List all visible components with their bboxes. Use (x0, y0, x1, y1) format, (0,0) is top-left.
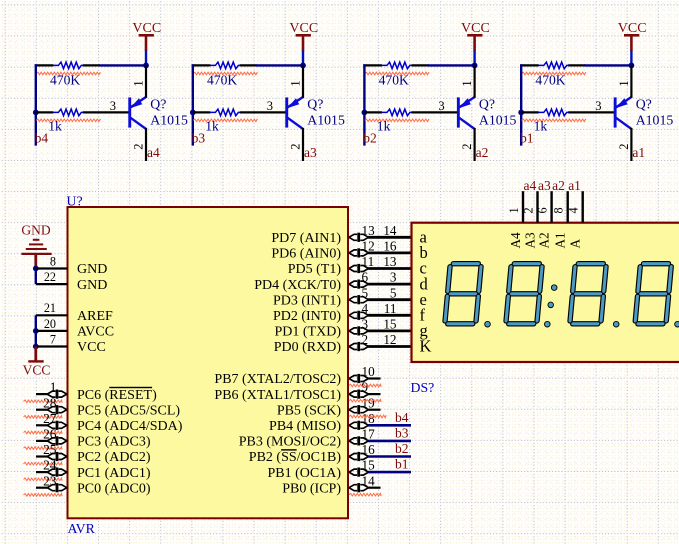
pin number 1 of Q (circuit 4) (131, 80, 145, 86)
net label b3 (395, 426, 409, 441)
svg-text:VCC: VCC (461, 21, 490, 36)
net label b2 (395, 441, 409, 456)
svg-text:A3: A3 (522, 232, 537, 249)
value label 470K (circuit 1) (535, 72, 565, 87)
svg-text:AVR: AVR (68, 521, 96, 536)
display pin number 16 (383, 239, 397, 254)
svg-text:8: 8 (552, 207, 566, 213)
display DS? body (412, 223, 679, 362)
svg-text:PC3 (ADC3): PC3 (ADC3) (77, 435, 151, 450)
wire VCC stem (circuit 3) (302, 51, 304, 66)
svg-text:PB1 (OC1A): PB1 (OC1A) (267, 466, 341, 481)
svg-text:25: 25 (43, 442, 57, 457)
svg-text:A4: A4 (508, 232, 523, 249)
svg-text:1: 1 (131, 80, 145, 86)
pin number 3 of Q (circuit 3) (267, 99, 273, 113)
power port VCC (at U? supply) (23, 347, 51, 378)
display segment pin label K (420, 337, 432, 356)
7-segment digit 1 (445, 264, 481, 324)
net label a4 (147, 145, 160, 160)
svg-text:26: 26 (43, 427, 57, 442)
wire base rail (circuit 3) (192, 64, 194, 145)
svg-text:PB0 (ICP): PB0 (ICP) (282, 481, 341, 496)
designator Q? (circuit 3) (307, 96, 323, 111)
svg-text:b4: b4 (35, 131, 49, 146)
wire emitter pin 1 (circuit 2) (474, 65, 476, 97)
pin 8 (GND) (36, 254, 108, 277)
svg-text:a2: a2 (476, 145, 489, 160)
svg-text:3: 3 (267, 99, 273, 113)
svg-text:1k: 1k (377, 119, 391, 134)
display anode label A3 (522, 232, 537, 249)
svg-text:2: 2 (288, 144, 302, 150)
svg-text:6: 6 (535, 207, 549, 213)
svg-text:PB5 (SCK): PB5 (SCK) (277, 403, 342, 418)
wire 470K row (circuit 3) (192, 64, 303, 66)
display anode label A2 (536, 232, 551, 248)
svg-text:8: 8 (50, 254, 56, 268)
wire emitter pin 1 (circuit 3) (302, 65, 304, 97)
svg-text:1k: 1k (534, 119, 548, 134)
7-segment digit 3 (570, 264, 606, 324)
svg-text:PD2 (INT0): PD2 (INT0) (273, 309, 341, 324)
pin number 3 of Q (circuit 1) (595, 99, 601, 113)
svg-text:A2: A2 (536, 232, 551, 248)
svg-text:2: 2 (460, 144, 474, 150)
net label a2 (552, 178, 565, 193)
wire 1k row (circuit 3) (193, 111, 287, 113)
svg-text:VCC: VCC (77, 340, 106, 355)
pin 13 (PD7) with wire to display (271, 223, 411, 246)
wire collector pin 2 (circuit 4) (145, 128, 147, 161)
ERC wavy marker PB pin (349, 415, 386, 418)
svg-text:AREF: AREF (77, 309, 113, 324)
svg-text:28: 28 (43, 395, 57, 410)
wire base rail (circuit 1) (520, 64, 522, 145)
value label 470K (circuit 3) (207, 72, 237, 87)
ERC wavy marker pin 1 (24, 400, 63, 403)
svg-text:11: 11 (384, 301, 397, 316)
svg-text:3: 3 (362, 317, 369, 332)
pin 2 (PD0) with wire to display (274, 332, 412, 355)
svg-text:GND: GND (77, 262, 107, 277)
svg-text:PD1 (TXD): PD1 (TXD) (275, 325, 342, 340)
svg-text:470K: 470K (379, 72, 409, 87)
display segment pin label a (420, 228, 428, 247)
pin number 2 of Q (circuit 2) (460, 144, 474, 150)
pin 10 (PB7) (214, 364, 380, 387)
wire 470K row (circuit 2) (363, 64, 474, 66)
net label a2 (476, 145, 489, 160)
svg-text:VCC: VCC (23, 363, 51, 378)
ERC wavy marker base (circuit 2) (365, 119, 429, 122)
wire 1k row (circuit 2) (364, 111, 458, 113)
svg-text:A1015: A1015 (636, 112, 674, 127)
net label a3 (304, 145, 317, 160)
svg-text:Q?: Q? (636, 96, 652, 111)
svg-text:PB3 (MOSI/OC2): PB3 (MOSI/OC2) (239, 435, 342, 450)
7-segment digit 2 (506, 264, 542, 324)
type label A1015 (circuit 2) (479, 112, 517, 127)
svg-text:3: 3 (595, 99, 601, 113)
svg-text:23: 23 (43, 473, 57, 488)
svg-text:14: 14 (362, 473, 376, 488)
resistor 1k (circuit 3) (210, 109, 240, 116)
svg-text:b1: b1 (520, 131, 534, 146)
pin 4 (PD2) with wire to display (273, 301, 412, 324)
svg-text:1: 1 (288, 80, 302, 86)
svg-text:3: 3 (390, 270, 397, 285)
pin 16 (PB2) (249, 442, 411, 465)
wire VCC stem (circuit 1) (630, 51, 632, 66)
value label 1k (circuit 3) (205, 119, 219, 134)
svg-text:VCC: VCC (289, 21, 318, 36)
ERC wavy marker top (circuit 1) (522, 72, 586, 75)
ERC wavy marker PB pin (349, 399, 381, 402)
junction VCC node (circuit 1) (629, 63, 635, 69)
svg-text:3: 3 (110, 99, 116, 113)
svg-text:13: 13 (383, 254, 397, 269)
net label a4 (524, 178, 537, 193)
svg-text:PC1 (ADC1): PC1 (ADC1) (77, 466, 151, 481)
power port VCC (circuit 1) (618, 21, 647, 51)
svg-text:A: A (568, 239, 583, 249)
value label 1k (circuit 1) (534, 119, 548, 134)
svg-text:VCC: VCC (618, 21, 647, 36)
net label b2 (363, 131, 377, 146)
svg-text:a1: a1 (632, 145, 645, 160)
svg-text:20: 20 (44, 317, 56, 331)
display pin number 13 (383, 254, 397, 269)
svg-text:Q?: Q? (150, 96, 166, 111)
svg-text:2: 2 (362, 332, 369, 347)
display segment pin label c (420, 259, 427, 278)
svg-text:a3: a3 (538, 178, 551, 193)
net label b4 (35, 131, 49, 146)
svg-text:PD4 (XCK/T0): PD4 (XCK/T0) (254, 278, 341, 293)
svg-text:PD6 (AIN0): PD6 (AIN0) (271, 247, 341, 262)
svg-text:a4: a4 (147, 145, 160, 160)
display pin 8 (A1) (552, 191, 568, 223)
svg-text:27: 27 (43, 411, 57, 426)
pin 6 (PD4) with wire to display (254, 270, 411, 293)
svg-text:PD7 (AIN1): PD7 (AIN1) (271, 231, 341, 246)
ERC wavy marker pin 26 (24, 447, 63, 450)
wire VCC stem (circuit 2) (473, 51, 475, 66)
display pin 1 (A4) (507, 191, 523, 223)
svg-text:b3: b3 (395, 426, 409, 441)
power port VCC (circuit 4) (132, 21, 161, 51)
svg-text:22: 22 (44, 270, 56, 284)
resistor 1k (circuit 1) (538, 109, 568, 116)
pin 12 (PD6) with wire to display (271, 239, 411, 262)
net label b3 (192, 131, 206, 146)
svg-text:A1015: A1015 (150, 112, 188, 127)
svg-text:5: 5 (362, 285, 369, 300)
svg-text:2: 2 (617, 144, 631, 150)
junction base rail (circuit 3) (190, 110, 196, 116)
svg-text:DS?: DS? (411, 380, 435, 395)
wire collector pin 2 (circuit 1) (630, 128, 632, 161)
svg-text:PC4 (ADC4/SDA): PC4 (ADC4/SDA) (77, 419, 183, 434)
svg-text:PD5 (T1): PD5 (T1) (288, 262, 342, 277)
pin 14 (PB0) (282, 473, 380, 496)
designator U? (67, 194, 83, 209)
svg-text:PC6 (RESET): PC6 (RESET) (77, 388, 157, 403)
pin 11 (PD5) with wire to display (288, 254, 412, 277)
svg-text:GND: GND (21, 223, 50, 238)
net label a1 (568, 178, 581, 193)
pin 19 (PB5) (277, 395, 381, 418)
svg-text:a2: a2 (552, 178, 565, 193)
resistor 470K (circuit 3) (210, 62, 240, 69)
svg-text:PC0 (ADC0): PC0 (ADC0) (77, 481, 151, 496)
pin number 3 of Q (circuit 4) (110, 99, 116, 113)
description AVR (68, 521, 96, 536)
wire base rail (circuit 2) (363, 64, 365, 145)
pin 20 (AVCC) (36, 317, 114, 340)
wire 1k row (circuit 4) (36, 111, 130, 113)
svg-text:PB4 (MISO): PB4 (MISO) (269, 419, 341, 434)
colon upper dot (551, 285, 557, 291)
svg-text:Q?: Q? (307, 96, 323, 111)
7-segment digit 4 (635, 264, 671, 324)
wire VCC stem (circuit 4) (145, 51, 147, 66)
junction VCC node (circuit 3) (300, 63, 306, 69)
svg-text:A1015: A1015 (307, 112, 345, 127)
svg-text:1: 1 (617, 80, 631, 86)
display segment pin label b (420, 243, 428, 262)
ERC wavy marker base (circuit 1) (522, 119, 586, 122)
svg-text:a3: a3 (304, 145, 317, 160)
pin number 1 of Q (circuit 3) (288, 80, 302, 86)
pin 27 (PC4) (36, 411, 183, 434)
net label b4 (395, 410, 409, 425)
junction base rail (circuit 1) (518, 110, 524, 116)
pin 1 (PC6) (36, 380, 157, 403)
display pin number 5 (390, 285, 397, 300)
svg-text:11: 11 (362, 254, 375, 269)
svg-text:PC2 (ADC2): PC2 (ADC2) (77, 450, 151, 465)
designator Q? (circuit 1) (636, 96, 652, 111)
net label b1 (520, 131, 534, 146)
ERC wavy marker base (circuit 3) (193, 119, 257, 122)
pin 23 (PC0) (36, 473, 151, 496)
pin 9 (PB6) (214, 380, 380, 403)
svg-text:a1: a1 (568, 178, 581, 193)
pin 24 (PC1) (36, 458, 151, 481)
wire 1k row (circuit 1) (521, 111, 615, 113)
pin 3 (PD1) with wire to display (275, 317, 412, 340)
colon lower dot (548, 302, 554, 308)
svg-text:3: 3 (438, 99, 444, 113)
svg-text:PB7 (XTAL2/TOSC2): PB7 (XTAL2/TOSC2) (214, 372, 341, 387)
junction VCC node (circuit 2) (472, 63, 478, 69)
pin 15 (PB1) (267, 458, 411, 481)
svg-text:5: 5 (390, 285, 397, 300)
junction base rail (circuit 2) (362, 110, 368, 116)
wire 470K row (circuit 1) (520, 64, 631, 66)
svg-text:4: 4 (567, 207, 581, 213)
pin 5 (PD3) with wire to display (273, 285, 412, 308)
svg-text:12: 12 (362, 239, 375, 254)
power port VCC (circuit 2) (461, 21, 490, 51)
type label A1015 (circuit 3) (307, 112, 345, 127)
svg-text:1: 1 (50, 380, 57, 395)
transistor Q? A1015 (circuit 4) (128, 97, 146, 130)
display pin number 12 (383, 332, 396, 347)
svg-text:6: 6 (362, 270, 369, 285)
ERC wavy marker PB pin (349, 384, 381, 387)
pin 7 (VCC) (36, 332, 106, 355)
svg-text:10: 10 (362, 364, 376, 379)
svg-text:b2: b2 (363, 131, 377, 146)
svg-text:15: 15 (362, 458, 376, 473)
display segment pin label g (420, 321, 428, 340)
pin 17 (PB3) (239, 427, 411, 450)
designator DS? (411, 380, 435, 395)
wire GND rail (35, 269, 37, 285)
svg-text:A1015: A1015 (479, 112, 517, 127)
pin 18 (PB4) (269, 411, 411, 434)
display pin number 11 (384, 301, 397, 316)
svg-text:16: 16 (362, 442, 376, 457)
resistor 470K (circuit 4) (53, 62, 83, 69)
ERC wavy marker top (circuit 2) (365, 72, 429, 75)
pin 21 (AREF) (36, 301, 113, 324)
svg-text:19: 19 (362, 395, 376, 410)
display pin number 3 (390, 270, 397, 285)
display pin 4 (A) (567, 191, 583, 223)
svg-text:16: 16 (383, 239, 397, 254)
resistor 1k (circuit 4) (53, 109, 83, 116)
display segment pin label d (420, 274, 429, 293)
net label a3 (538, 178, 551, 193)
pin 25 (PC2) (36, 442, 151, 465)
svg-text:b2: b2 (395, 441, 409, 456)
svg-text:a4: a4 (524, 178, 537, 193)
pin 22 (GND) (36, 270, 108, 293)
svg-text:470K: 470K (535, 72, 565, 87)
ERC wavy marker pin 27 (24, 431, 63, 434)
decimal point 4 (675, 321, 679, 327)
wire base rail (circuit 4) (35, 64, 37, 145)
junction VCC pin node (33, 344, 39, 350)
value label 470K (circuit 4) (50, 72, 80, 87)
ERC wavy marker pin 24 (24, 478, 63, 481)
transistor Q? A1015 (circuit 2) (457, 97, 475, 130)
decimal point 2 (545, 321, 551, 327)
svg-text:U?: U? (67, 194, 83, 209)
svg-text:18: 18 (362, 411, 376, 426)
pin number 1 of Q (circuit 1) (617, 80, 631, 86)
svg-text:VCC: VCC (132, 21, 161, 36)
net label a1 (632, 145, 645, 160)
wire collector pin 2 (circuit 2) (474, 128, 476, 161)
svg-text:PD3 (INT1): PD3 (INT1) (273, 293, 341, 308)
svg-text:K: K (420, 337, 432, 356)
wire emitter pin 1 (circuit 1) (630, 65, 632, 97)
svg-text:PC5 (ADC5/SCL): PC5 (ADC5/SCL) (77, 403, 180, 418)
wire AREF-AVCC-VCC rail (35, 315, 37, 346)
svg-text:4: 4 (362, 301, 369, 316)
ERC wavy marker pin 28 (24, 416, 63, 419)
display anode label A4 (508, 232, 523, 249)
svg-text:17: 17 (362, 427, 376, 442)
IC U? body (68, 207, 349, 518)
display pin number 15 (383, 317, 397, 332)
svg-text:470K: 470K (207, 72, 237, 87)
display pin 2 (A3) (521, 191, 537, 223)
ERC wavy marker top (circuit 3) (193, 72, 257, 75)
transistor Q? A1015 (circuit 3) (285, 97, 303, 130)
value label 1k (circuit 2) (377, 119, 391, 134)
svg-text:2: 2 (131, 144, 145, 150)
svg-text:1k: 1k (205, 119, 219, 134)
power port VCC (circuit 3) (289, 21, 318, 51)
svg-text:12: 12 (383, 332, 396, 347)
svg-text:21: 21 (44, 301, 56, 315)
svg-text:AVCC: AVCC (77, 325, 114, 340)
junction AVCC node (33, 328, 39, 334)
svg-text:470K: 470K (50, 72, 80, 87)
svg-text:A1: A1 (553, 232, 568, 248)
decimal point 3 (613, 321, 619, 327)
ERC wavy marker base (circuit 4) (36, 119, 100, 122)
ERC wavy marker pin 23 (24, 494, 63, 497)
svg-text:13: 13 (362, 223, 376, 238)
display segment pin label f (420, 306, 426, 325)
svg-text:PB6 (XTAL1/TOSC1): PB6 (XTAL1/TOSC1) (214, 388, 341, 403)
svg-text:24: 24 (43, 458, 57, 473)
pin number 2 of Q (circuit 4) (131, 144, 145, 150)
power port GND (earth symbol) (21, 223, 51, 269)
display pin number 14 (383, 223, 397, 238)
wire 470K row (circuit 4) (35, 64, 146, 66)
wire collector pin 2 (circuit 3) (302, 128, 304, 161)
designator Q? (circuit 4) (150, 96, 166, 111)
svg-text:14: 14 (383, 223, 397, 238)
pin number 3 of Q (circuit 2) (438, 99, 444, 113)
svg-text:1k: 1k (48, 119, 62, 134)
resistor 1k (circuit 2) (381, 109, 411, 116)
display anode label A (568, 239, 583, 249)
display pin 6 (A2) (535, 191, 551, 223)
svg-text:15: 15 (383, 317, 397, 332)
resistor 470K (circuit 2) (381, 62, 411, 69)
svg-text:PB2 (SS/OC1B): PB2 (SS/OC1B) (249, 450, 342, 465)
svg-text:b4: b4 (395, 410, 409, 425)
svg-text:GND: GND (77, 278, 107, 293)
display segment pin label e (420, 290, 427, 309)
wire emitter pin 1 (circuit 4) (145, 65, 147, 97)
decimal point 1 (485, 321, 491, 327)
svg-text:b1: b1 (395, 457, 409, 472)
svg-text:1: 1 (460, 80, 474, 86)
ERC wavy marker pin 25 (24, 462, 63, 465)
svg-text:1: 1 (507, 207, 521, 213)
pin number 1 of Q (circuit 2) (460, 80, 474, 86)
junction VCC node (circuit 4) (143, 63, 149, 69)
designator Q? (circuit 2) (479, 96, 495, 111)
svg-text:9: 9 (362, 380, 369, 395)
junction base rail (circuit 4) (33, 110, 39, 116)
junction GND node (33, 266, 39, 272)
svg-text:Q?: Q? (479, 96, 495, 111)
svg-text:b3: b3 (192, 131, 206, 146)
display anode label A1 (553, 232, 568, 248)
ERC wavy marker top (circuit 4) (36, 72, 100, 75)
